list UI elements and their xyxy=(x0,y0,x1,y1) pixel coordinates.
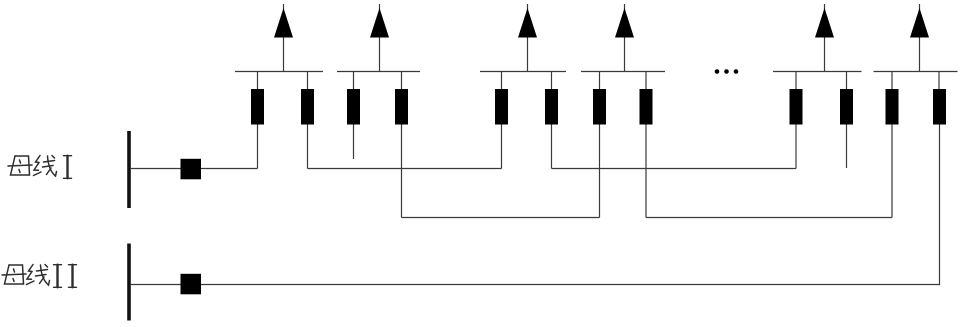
bus bar II (vertical thick bar) xyxy=(127,244,131,321)
wire: bus II main run xyxy=(131,125,940,285)
wire: jumper b8 to b11 xyxy=(646,217,892,219)
switch S5a xyxy=(790,89,803,125)
branch wire b11 xyxy=(891,72,893,218)
switch S5b xyxy=(840,89,853,125)
glyph 母 xyxy=(8,156,32,175)
switch S1b xyxy=(301,89,314,125)
arrow F1 (outgoing line) xyxy=(283,4,285,72)
branch wire b7 xyxy=(599,72,601,218)
bus bar I (vertical thick bar) xyxy=(127,131,131,208)
switch S4b xyxy=(640,89,653,125)
label: 母线I (Bus I) xyxy=(8,156,72,179)
branch wire b2 xyxy=(307,72,309,169)
glyph 线 xyxy=(27,265,50,286)
branch wire b12 (to bus II) xyxy=(938,72,940,125)
branch wire b10 (stub) xyxy=(846,72,848,169)
switch S6b xyxy=(933,89,946,125)
arrow F6 (outgoing line) xyxy=(919,4,921,72)
switch S6a xyxy=(886,89,899,125)
branch wire b5 xyxy=(501,72,503,169)
switch S1a xyxy=(251,89,264,125)
wire: bus I to branch 1 xyxy=(131,168,258,170)
branch wire b6 xyxy=(551,72,553,169)
switch S2b xyxy=(395,89,408,125)
switch S4a xyxy=(593,89,606,125)
tie bar T1 xyxy=(235,71,323,73)
tie bar T3 xyxy=(480,71,566,73)
branch wire b8 xyxy=(645,72,647,218)
label: 母线II (Bus II) xyxy=(2,265,77,288)
arrow F4 (outgoing line) xyxy=(624,4,626,72)
glyph I (first) xyxy=(54,265,62,288)
arrow F3 (outgoing line) xyxy=(527,4,529,72)
wire: jumper b4 to b7 xyxy=(402,217,600,219)
tie bar T5 xyxy=(773,71,862,73)
branch wire b4 xyxy=(401,72,403,218)
breaker on bus II (black square) xyxy=(181,274,202,295)
branch wire b1 xyxy=(257,72,259,169)
glyph I (roman numeral) xyxy=(64,156,72,179)
glyph 线 xyxy=(34,156,57,177)
wire: jumper b2 to b5 xyxy=(308,168,502,170)
arrow F5 (outgoing line) xyxy=(824,4,826,72)
switch S2a xyxy=(347,89,360,125)
ellipsis (more feeders) xyxy=(715,69,739,74)
switch S3a xyxy=(495,89,508,125)
switch S3b xyxy=(545,89,558,125)
branch wire b9 xyxy=(795,72,797,169)
tie bar T2 xyxy=(337,71,420,73)
branch wire b3 (stub) xyxy=(353,72,355,160)
glyph I (second) xyxy=(69,265,77,288)
tie bar T4 xyxy=(581,71,665,73)
breaker on bus I (black square) xyxy=(181,159,202,180)
glyph 母 xyxy=(2,265,26,284)
tie bar T6 xyxy=(874,71,958,73)
arrow F2 (outgoing line) xyxy=(379,4,381,72)
wire: jumper b6 to b9 xyxy=(552,168,797,170)
